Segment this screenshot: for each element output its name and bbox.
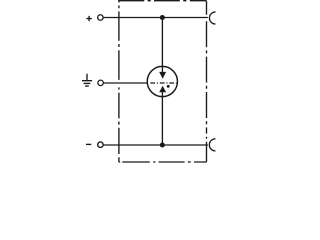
enclosure right border (dash-dot) (206, 1, 208, 162)
wire: - line (bottom), terminal to right border (104, 144, 208, 146)
spark gap electrode arrow (down) (159, 72, 166, 79)
wire: vertical center conductor, top segment (161, 18, 163, 73)
enclosure left border (dash-dot) (118, 1, 120, 162)
enclosure bottom border (dash-dot) (119, 161, 207, 163)
wire: ground line (middle), terminal to arrester circle (104, 82, 148, 84)
+ terminal circle (98, 15, 104, 21)
enclosure top border (dash-dot) (118, 0, 206, 2)
connector socket arc (bottom right) (209, 139, 215, 151)
connector socket arc (top right) (209, 12, 215, 24)
gas discharge tube / spark gap circle (147, 66, 177, 96)
label - (minus sign) (86, 143, 91, 145)
node: junction dot on + line (160, 15, 165, 20)
spark gap electrode arrow (up) (159, 86, 166, 93)
ground terminal circle (98, 80, 104, 86)
ground symbol (82, 74, 92, 86)
center line through spark gap (dash-dot) (150, 82, 176, 84)
wire: vertical center conductor, bottom segment (161, 92, 163, 145)
label + (plus sign) (86, 16, 91, 21)
gas-filled indicator dot (167, 85, 170, 88)
wire: + line (top), terminal to right border (104, 17, 208, 19)
node: junction dot on - line (160, 142, 165, 147)
- terminal circle (98, 142, 104, 148)
